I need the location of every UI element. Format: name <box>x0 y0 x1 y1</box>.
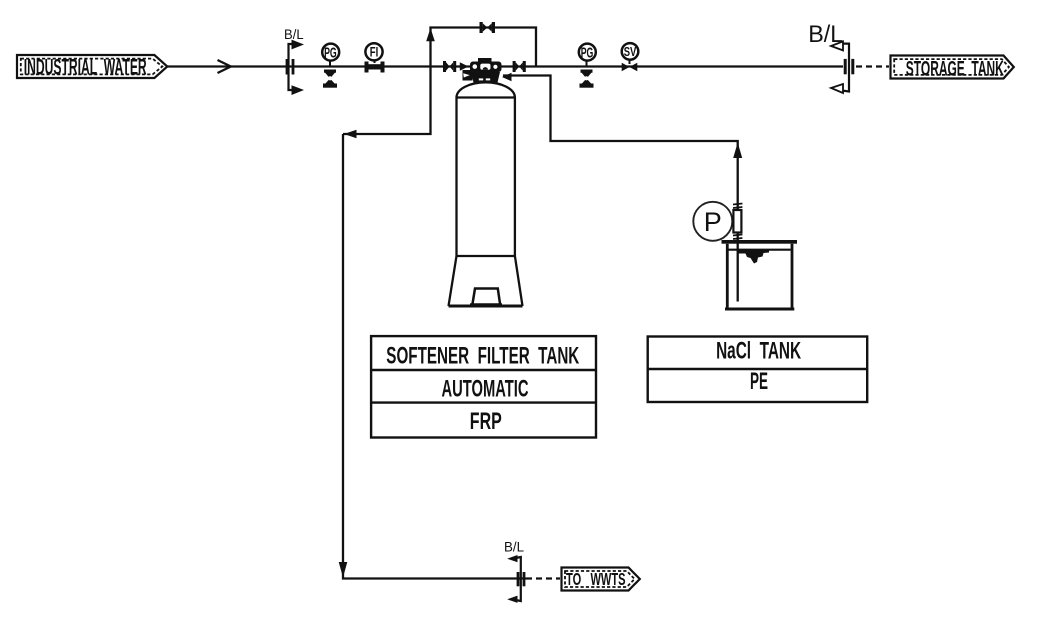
svg-text:P: P <box>704 207 722 237</box>
svg-text:PG: PG <box>581 45 594 62</box>
svg-text:SV: SV <box>624 44 637 59</box>
svg-text:NaCl TANK: NaCl TANK <box>716 338 801 365</box>
svg-text:PG: PG <box>324 45 337 62</box>
svg-text:PE: PE <box>750 368 768 395</box>
svg-text:SOFTENER FILTER TANK: SOFTENER FILTER TANK <box>386 342 579 369</box>
svg-text:INDUSTRIAL WATER: INDUSTRIAL WATER <box>24 54 147 79</box>
svg-text:B/L: B/L <box>504 539 524 555</box>
svg-text:FRP: FRP <box>470 408 502 435</box>
svg-text:AUTOMATIC: AUTOMATIC <box>442 375 529 402</box>
svg-text:STORAGE TANK: STORAGE TANK <box>906 58 1004 81</box>
svg-text:FI: FI <box>370 44 379 59</box>
svg-text:B/L: B/L <box>284 26 304 42</box>
svg-text:TO WWTS: TO WWTS <box>566 569 626 589</box>
